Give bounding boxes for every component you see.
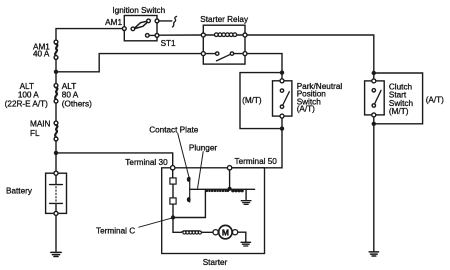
node: clutch bottom junction [372, 122, 376, 126]
plunger rod and winding line [190, 188, 255, 190]
svg-text:Starter: Starter [203, 258, 228, 267]
node: bus junction to terminal 30 [54, 151, 58, 155]
relay coil [205, 34, 243, 36]
wire: junction to starter terminal 30 [56, 153, 173, 166]
label Terminal 30 [125, 158, 168, 167]
label AM1 (ignition pin) [105, 18, 122, 27]
terminal 50 [227, 166, 231, 170]
wire: plunger line down to terminal C node [175, 189, 205, 217]
node: bus junction to relay feed [54, 70, 58, 74]
field winding [181, 231, 202, 234]
svg-text:Contact Plate: Contact Plate [149, 125, 199, 134]
svg-text:Terminal C: Terminal C [96, 227, 135, 236]
label M (motor) [222, 227, 229, 237]
wire: motor to ground [238, 232, 246, 242]
label Ignition Switch [112, 6, 165, 15]
starter relay [201, 25, 247, 64]
svg-text:MAIN: MAIN [30, 119, 51, 128]
svg-text:40 A: 40 A [33, 50, 50, 59]
svg-text:Starter Relay: Starter Relay [200, 15, 249, 24]
terminal 30 [171, 166, 175, 170]
label ALT 80 A (Others) [62, 82, 92, 108]
hold-in winding [231, 189, 244, 192]
wire: park/neutral to terminal 50 [232, 131, 282, 168]
fuse ALT 100A/80A [54, 84, 58, 104]
svg-text:(A/T): (A/T) [297, 105, 315, 114]
wire: junction to ALT fuse [55, 74, 57, 84]
leader: contact plate [178, 133, 189, 177]
starter box [162, 168, 265, 254]
lever [134, 21, 149, 29]
label MAIN FL [30, 119, 51, 137]
wire: relay contact row to park/neutral switch [247, 54, 282, 71]
wire: battery to ground [55, 215, 57, 252]
svg-text:(M/T): (M/T) [389, 107, 409, 116]
svg-text:(Others): (Others) [62, 99, 92, 108]
wire: field winding to motor [202, 231, 213, 233]
node: park/neutral bottom junction [280, 126, 284, 130]
wire: relay coil row to clutch start switch [247, 35, 374, 71]
svg-text:M: M [222, 227, 229, 237]
svg-text:AM1: AM1 [105, 18, 122, 27]
svg-text:100 A: 100 A [18, 90, 39, 99]
fuse AM1 40A [54, 40, 58, 59]
wire break symbol [172, 16, 176, 27]
ground (battery) [51, 252, 61, 256]
svg-text:Terminal 30: Terminal 30 [125, 158, 168, 167]
ignition switch SW1 [122, 16, 159, 41]
label AM1 40 A [33, 42, 50, 58]
svg-text:ST1: ST1 [161, 39, 176, 48]
node: clutch start top junction [372, 71, 376, 75]
label (M/T) [242, 96, 262, 105]
node: winding junction [228, 187, 232, 191]
ground (hold-in winding) [241, 201, 251, 205]
wire: ALT fuse to MAIN FL [55, 103, 57, 121]
clutch start switch [365, 79, 385, 117]
battery [46, 171, 67, 215]
pull-in winding [206, 190, 230, 193]
wire: lower contact to terminal C node [172, 204, 174, 215]
wire: switch to bottom junction [281, 118, 283, 126]
wire: clutch junction to ground [373, 126, 375, 252]
wire: MAIN FL to junction [55, 141, 57, 151]
label ST1 [161, 39, 176, 48]
wire: junction to switch [281, 75, 283, 79]
svg-text:(A/T): (A/T) [426, 95, 444, 104]
wire: terminal C node to field winding [173, 220, 182, 233]
wire: terminal 30 to contacts [172, 170, 174, 178]
wire between contacts [172, 184, 174, 198]
label Terminal C [96, 227, 135, 236]
node: terminal C junction [171, 215, 175, 219]
label Plunger [189, 143, 217, 152]
svg-text:80 A: 80 A [62, 90, 79, 99]
leader: terminal C [139, 218, 172, 227]
node: park/neutral top junction [280, 70, 284, 74]
contact (upper square) [170, 178, 176, 184]
relay contact [205, 53, 243, 55]
wire: clutch switch to bottom junction [373, 117, 375, 122]
label Battery [6, 186, 33, 195]
wire: terminal 50 down to winding junction [229, 170, 231, 187]
svg-text:Plunger: Plunger [189, 143, 217, 152]
svg-text:Terminal 50: Terminal 50 [235, 157, 278, 166]
wire A/T bypass loop [374, 73, 423, 124]
label Starter [203, 258, 228, 267]
ground (clutch circuit) [369, 252, 378, 256]
wire: junction to starter relay switch row [56, 54, 201, 72]
label ALT 100 A (22R-E A/T) [5, 82, 48, 108]
label Clutch Start Switch (M/T) [389, 82, 414, 116]
label Starter Relay [200, 15, 249, 24]
label Terminal 50 [235, 157, 278, 166]
wire: junction to battery [55, 155, 57, 171]
wire: AM1 fuse to junction [55, 59, 57, 69]
wire: ST1 to starter relay coil [159, 34, 202, 36]
svg-text:Battery: Battery [6, 186, 33, 195]
wire: ignition top contact continuation [159, 20, 172, 22]
motor M [213, 225, 238, 238]
contact plate [187, 177, 191, 202]
svg-text:(M/T): (M/T) [242, 96, 262, 105]
ground (motor) [241, 242, 251, 246]
relay terminals [201, 33, 205, 37]
park/neutral position switch [273, 79, 292, 118]
leader: plunger [198, 152, 204, 189]
contact (lower square) [170, 198, 176, 204]
wire: winding to ground [245, 189, 247, 200]
label Park/Neutral Position Switch (A/T) [297, 82, 343, 114]
fuse MAIN FL [54, 121, 58, 141]
label (A/T) right [426, 95, 444, 104]
label Contact Plate [149, 125, 199, 134]
svg-text:(22R-E A/T): (22R-E A/T) [5, 99, 48, 108]
wire: junction to clutch switch [373, 75, 375, 79]
wire: battery bus top to ignition AM1 [56, 29, 122, 40]
svg-text:FL: FL [30, 129, 40, 138]
svg-text:Ignition Switch: Ignition Switch [112, 6, 165, 15]
wire M/T bypass loop [240, 73, 282, 129]
